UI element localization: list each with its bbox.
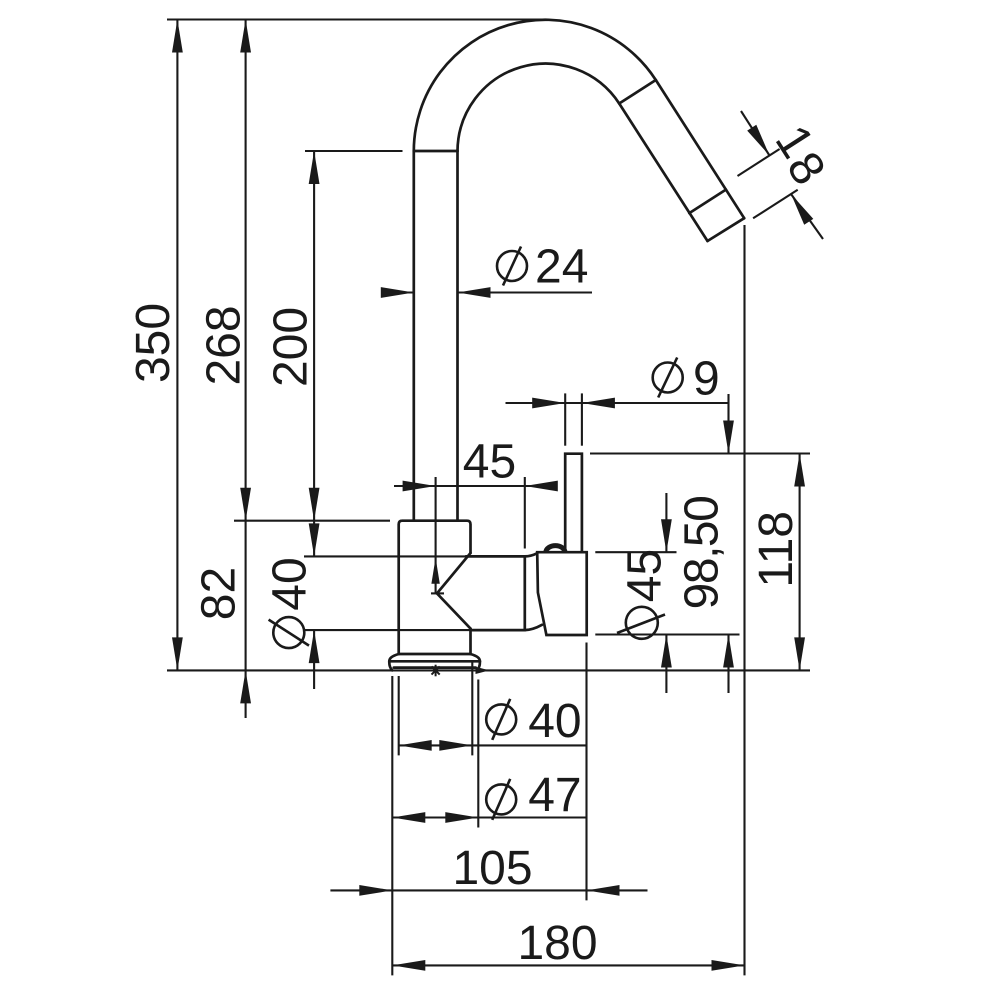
base / countertop line [167, 669, 810, 671]
dia symbol for 40 left rotated [273, 617, 304, 648]
arrow dia40 bottom [309, 630, 320, 663]
arrow 118 bottom [794, 637, 805, 670]
arrow dia47 right [445, 812, 478, 823]
valve body right edge lower [469, 629, 472, 654]
extension line base right (dia47 datum) [477, 680, 479, 828]
base flange lower line [394, 666, 476, 669]
extension line stem right (dia9) [581, 393, 583, 445]
riser pipe left edge [412, 151, 415, 521]
dimension line dia45 lower shaft [665, 635, 667, 694]
extension line body top (268/200 datum) [234, 520, 390, 522]
arrow 268 top [240, 20, 251, 53]
svg-text:180: 180 [517, 917, 597, 970]
arrow 45 right [525, 481, 558, 492]
handle lever ball cap [546, 546, 565, 553]
extension line base left (47/105/180 datum) [391, 676, 393, 975]
pipe joint seam [414, 150, 458, 153]
arrow 18 lower [791, 194, 813, 225]
dimension line dia47 bottom [392, 816, 586, 818]
dimension line 268 / 82 [245, 20, 247, 719]
pipe axis extension line [435, 477, 437, 593]
arrow dia47 left [392, 812, 425, 823]
extension line spout tip (180 datum) [743, 225, 745, 975]
spout holder cone top edge [466, 555, 525, 558]
arrow 350 bottom [172, 637, 183, 670]
arrow 82 bottom [240, 670, 251, 703]
extension line stem top (98,50/118 datum) [590, 452, 810, 454]
extension line handle right (105 datum) [585, 643, 587, 901]
base flange mid line [389, 660, 480, 663]
svg-text:98,50: 98,50 [676, 497, 729, 610]
dimension line 18 upper segment [741, 111, 770, 156]
extension line handle bottom (dia45/98,50 datum) [595, 633, 739, 635]
spout tip end face [708, 218, 745, 241]
dia symbol for 40 bottom [486, 704, 516, 734]
extension line 18 upper [738, 149, 780, 176]
spout holder cone end face [523, 556, 526, 630]
arrow 118 top [794, 454, 805, 487]
riser pipe right edge [456, 151, 459, 521]
svg-text:200: 200 [265, 307, 318, 387]
arrow 98,50 bottom [723, 635, 734, 668]
extension line stem left (dia9) [564, 393, 566, 445]
arrow 180 left [392, 960, 425, 971]
dia symbol for 45 rotated [626, 607, 658, 639]
dia symbol for 47 bottom [486, 784, 516, 814]
bend to spout transition seam [619, 80, 656, 104]
cone to handle bottom fillet [525, 625, 542, 630]
extension line spout base (200 datum) [305, 150, 403, 152]
dimension line 180 [392, 964, 744, 966]
extension line body left (dia40 datum) [398, 676, 400, 755]
dimension line dia24 left tail [381, 291, 414, 293]
extension line cone bottom (dia40) [304, 629, 471, 631]
svg-text:45: 45 [619, 549, 672, 602]
extension line 18 lower [753, 190, 798, 219]
top extension line (350/268 datum) [167, 18, 545, 20]
arrow dia45 top [661, 519, 672, 552]
handle cartridge body [537, 552, 587, 635]
spout holder cone bottom edge [471, 629, 525, 632]
arrow dia40 top [309, 523, 320, 556]
arrow 45 left [403, 481, 436, 492]
body bottom shoulder line [399, 653, 471, 656]
svg-text:105: 105 [452, 842, 532, 895]
arrow 268 bottom [240, 488, 251, 521]
arrow 105 right [587, 885, 620, 896]
arrow dia45 bottom [661, 635, 672, 668]
dimension line 98,50 upper shaft [727, 394, 729, 454]
cone axis tick [431, 592, 444, 594]
dimension line dia40 lower shaft [313, 630, 315, 689]
svg-text:268: 268 [198, 305, 251, 385]
spray head seam [689, 190, 726, 214]
dia symbol for 9 [653, 363, 683, 393]
svg-text:350: 350 [127, 303, 180, 383]
spout bend inner arc [458, 64, 620, 151]
arrow 200 bottom [309, 488, 320, 521]
arrow 98,50 top [723, 421, 734, 454]
svg-text:24: 24 [535, 241, 588, 294]
handle lever stem [565, 454, 582, 553]
base flange left profile [389, 654, 398, 670]
extension line body right (dia40 datum) [471, 663, 473, 756]
arrow dia24 right [458, 287, 491, 298]
svg-text:82: 82 [193, 567, 246, 620]
spout straight lower edge [619, 104, 707, 242]
extension line cone end face (45 datum) [524, 477, 526, 549]
arrow 200 top [309, 151, 320, 184]
arrow dia40B right [439, 740, 472, 751]
arrow base line [476, 667, 490, 674]
dimension line 45 [394, 485, 558, 487]
arrow 180 right [712, 960, 745, 971]
arrow dia9 left [532, 398, 565, 409]
valve body outline [399, 521, 471, 654]
arrow 105 left [359, 885, 392, 896]
svg-text:9: 9 [693, 353, 720, 406]
dimension line 118 [799, 454, 801, 671]
arrow axis marker [431, 558, 439, 584]
dimension line dia45 upper shaft [665, 493, 667, 552]
extension line handle top (dia45 datum) [595, 551, 676, 553]
spout bend outer arc [414, 20, 656, 151]
spout straight upper edge [656, 80, 744, 218]
body-cone notch upper diagonal [437, 553, 471, 593]
base flange right profile [471, 654, 480, 670]
dimension line 98,50 lower shaft [727, 635, 729, 694]
svg-text:40: 40 [528, 695, 581, 748]
svg-text:118: 118 [750, 511, 803, 588]
extension line cone top (dia40) [304, 555, 466, 557]
arrow dia40B left [399, 740, 432, 751]
axis asterisk marker [430, 665, 442, 677]
dia symbol for 24 [497, 251, 527, 281]
arrow dia9 right [582, 398, 615, 409]
dimension line 105 [330, 889, 647, 891]
arrow 18 upper [747, 125, 769, 156]
arrow 350 top [172, 20, 183, 53]
arrow dia24 left [381, 287, 414, 298]
svg-text:47: 47 [528, 769, 581, 822]
body-cone notch lower diagonal [437, 593, 471, 628]
svg-text:45: 45 [463, 436, 516, 489]
svg-text:40: 40 [264, 557, 317, 610]
cone to handle top fillet [525, 553, 537, 556]
dimension line dia40 bottom [399, 744, 587, 746]
dimension line dia9 [506, 402, 729, 404]
dimension line 18 lower segment [791, 194, 823, 239]
dimension line 200 / dia40 upper [313, 151, 315, 556]
dimension line dia24 right with shelf [458, 291, 593, 293]
dimension line 350 [176, 20, 178, 671]
